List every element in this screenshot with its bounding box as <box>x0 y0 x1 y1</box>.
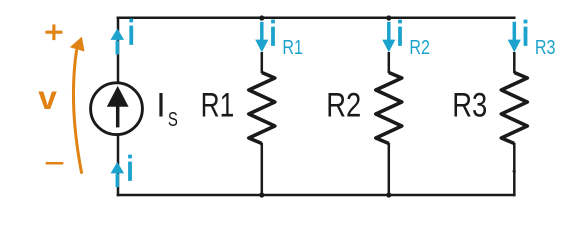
wire branch R1 lower segment <box>261 143 264 196</box>
resistor R3 <box>501 73 527 144</box>
wire branch R1 upper segment <box>261 52 264 73</box>
node junction dot top branch R2 <box>386 15 391 20</box>
wire branch R2 upper segment <box>388 52 391 73</box>
wire left branch lower segment <box>117 135 120 196</box>
svg-text:R3: R3 <box>535 37 556 59</box>
svg-text:R1: R1 <box>201 87 235 125</box>
svg-text:i: i <box>522 14 530 53</box>
current arrow i bottom of source branch <box>111 162 125 187</box>
wire branch R3 lower segment <box>513 143 516 196</box>
voltage polarity minus sign <box>46 162 64 165</box>
node small dot on branch R3 lower wire <box>513 170 516 173</box>
voltage polarity plus sign <box>45 24 62 40</box>
current arrow i_R3 <box>508 22 521 53</box>
voltage reference arc arrow <box>70 37 85 173</box>
svg-text:R3: R3 <box>452 87 487 125</box>
resistor R1 <box>249 73 275 144</box>
svg-text:R1: R1 <box>282 37 303 59</box>
svg-text:i: i <box>126 150 134 189</box>
svg-text:v: v <box>38 80 57 117</box>
svg-text:I: I <box>156 86 165 124</box>
wire top bus <box>117 17 516 20</box>
svg-text:i: i <box>269 14 277 53</box>
svg-text:i: i <box>127 14 135 53</box>
node junction dot bottom branch R1 <box>259 192 264 197</box>
current arrow i_R1 <box>255 22 268 53</box>
current arrow i_R2 <box>382 22 395 53</box>
node junction dot top branch R1 <box>259 15 264 20</box>
wire left branch upper segment <box>117 17 120 83</box>
wire branch R2 lower segment <box>388 143 391 196</box>
wire bottom bus <box>117 194 516 197</box>
svg-text:R2: R2 <box>326 87 361 125</box>
resistor R2 <box>376 73 402 144</box>
current arrow i top of source branch <box>111 28 125 54</box>
svg-text:S: S <box>168 108 178 131</box>
node junction dot bottom branch R2 <box>386 192 391 197</box>
current source I_S <box>91 83 143 135</box>
svg-text:R2: R2 <box>409 37 430 59</box>
wire branch R3 upper segment <box>513 52 516 73</box>
svg-text:i: i <box>396 14 404 53</box>
